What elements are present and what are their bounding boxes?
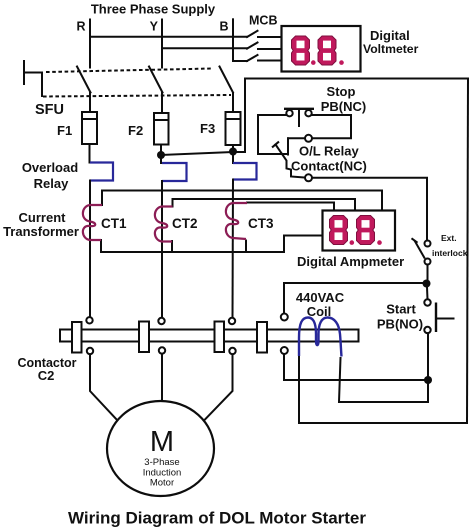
svg-text:B: B — [219, 20, 228, 34]
wire MCB out 2 to voltmeter — [258, 48, 282, 50]
svg-text:Voltmeter: Voltmeter — [363, 42, 419, 56]
wire MCB out 1 to voltmeter — [258, 36, 282, 38]
node junction below start PB — [424, 376, 432, 384]
ammeter decimal point 2 — [377, 240, 382, 245]
wire CT secondary bottom bus to ammeter — [101, 236, 323, 253]
svg-text:Current: Current — [19, 210, 67, 225]
SFU linkage dotted line lower — [44, 95, 230, 97]
overload relay heater B (blue) — [233, 163, 257, 180]
svg-text:Ext.: Ext. — [441, 233, 457, 243]
wire coil left lead — [298, 352, 300, 423]
wire Y phase mid vertical — [161, 181, 163, 318]
stop push button PB(NC) — [284, 109, 314, 127]
SFU handle — [23, 61, 25, 84]
voltmeter decimal point 1 — [311, 60, 316, 65]
SFU linkage dotted line upper — [47, 69, 212, 73]
ammeter decimal point 1 — [350, 240, 355, 245]
svg-text:F2: F2 — [128, 123, 143, 138]
wire R to fuse F1 — [89, 93, 91, 112]
svg-text:Overload: Overload — [22, 160, 78, 175]
contactor contact circles bottom — [87, 348, 93, 354]
control box top edge — [245, 78, 468, 80]
overload relay heater Y (blue) — [162, 163, 187, 181]
wire Y phase top vertical — [161, 20, 163, 68]
svg-text:R: R — [76, 20, 85, 34]
MCB blade pole 1 — [247, 31, 258, 37]
wire start PB bottom to lower junction — [427, 333, 429, 376]
wire Y to fuse F2 — [161, 93, 163, 113]
wire contactor to motor Y — [161, 354, 163, 399]
fuse F2 — [154, 113, 169, 145]
current transformer CT1 — [83, 205, 102, 240]
svg-text:Digital Ampmeter: Digital Ampmeter — [297, 254, 404, 269]
wire stop PB left drop — [258, 115, 286, 154]
svg-text:PB(NC): PB(NC) — [321, 99, 367, 114]
ext interlock switch — [412, 238, 431, 264]
contactor contact circles top — [86, 317, 92, 323]
junction dot at F2 — [157, 151, 165, 159]
contactor pole 4 — [257, 322, 267, 353]
wire MCB out 3 to voltmeter — [258, 60, 282, 62]
current transformer CT2 — [155, 207, 173, 242]
wire Y tap to MCB — [162, 47, 247, 49]
wire contactor to motor B — [205, 354, 233, 420]
svg-text:Y: Y — [150, 20, 159, 34]
MCB blade pole 3 — [233, 60, 247, 62]
svg-text:Transformer: Transformer — [3, 224, 79, 239]
wire O/L bottom to ext interlock — [312, 178, 427, 241]
svg-text:Relay: Relay — [34, 176, 69, 191]
svg-text:3-Phase: 3-Phase — [144, 457, 179, 468]
svg-text:Digital: Digital — [370, 28, 410, 43]
svg-text:Contact(NC): Contact(NC) — [291, 159, 367, 174]
voltmeter digit 8 (tens) — [292, 36, 310, 65]
wire R phase top vertical — [89, 20, 91, 68]
svg-text:440VAC: 440VAC — [296, 290, 345, 305]
wire R phase mid vertical — [89, 181, 91, 318]
wire CT3 secondary bottom stub — [245, 241, 247, 253]
O/L relay contact (NC) — [273, 135, 312, 182]
digital voltmeter U1 box — [282, 26, 361, 72]
digital ammeter U2 box — [323, 211, 396, 251]
svg-text:F3: F3 — [200, 121, 215, 136]
wire CT2 secondary bottom stub — [171, 241, 173, 252]
junction dot at F3 — [229, 148, 237, 156]
wire CT1 secondary bottom stub — [100, 240, 102, 252]
wire B phase top vertical — [232, 19, 234, 61]
contactor pole 3 — [215, 322, 225, 353]
overload relay heater R (blue) — [90, 163, 113, 181]
contactor pole 2 — [139, 322, 149, 353]
svg-text:PB(NO): PB(NO) — [377, 317, 423, 332]
wire B to fuse F3 — [232, 93, 234, 112]
ammeter digit 8 (units) — [357, 216, 375, 245]
svg-text:Three Phase Supply: Three Phase Supply — [91, 2, 216, 17]
SFU switch blade R — [77, 67, 91, 93]
aux contact top circle — [281, 314, 288, 321]
wire F1 bottom stub — [89, 144, 91, 163]
svg-text:O/L Relay: O/L Relay — [299, 144, 360, 159]
MCB blade pole 2 — [247, 43, 258, 49]
wire stop PB right to O/L top — [312, 115, 352, 138]
svg-text:SFU: SFU — [35, 102, 64, 118]
fuse F1 — [82, 112, 97, 144]
svg-text:M: M — [150, 426, 174, 458]
wire B phase mid vertical — [232, 180, 235, 318]
svg-text:F1: F1 — [57, 123, 72, 138]
node junction above start PB — [423, 280, 431, 288]
control box bottom edge — [299, 422, 467, 424]
motor M circle — [107, 401, 214, 496]
fuse F3 — [226, 112, 241, 145]
svg-text:Wiring Diagram of DOL Motor St: Wiring Diagram of DOL Motor Starter — [68, 509, 366, 528]
control box right edge — [467, 79, 468, 424]
wire contactor to motor R — [90, 354, 118, 420]
svg-text:interlock: interlock — [432, 248, 468, 258]
wire F3 bottom stub — [232, 145, 234, 163]
wire CT3 secondary top (line C) — [247, 203, 334, 212]
svg-text:Start: Start — [386, 302, 416, 317]
wire junction to start PB — [426, 287, 429, 299]
current transformer CT3 — [226, 203, 247, 239]
wire R tap to MCB — [90, 36, 247, 38]
svg-text:C2: C2 — [38, 368, 55, 383]
ammeter digit 8 (tens) — [330, 216, 348, 245]
wire junction to aux contact branch — [284, 283, 426, 313]
svg-text:CT3: CT3 — [248, 216, 274, 231]
svg-text:CT2: CT2 — [172, 216, 198, 231]
start push button PB(NO) — [424, 299, 454, 333]
wire CT2 secondary top (line B) — [173, 199, 356, 211]
wire F2 bottom stub — [160, 145, 162, 164]
voltmeter digit 8 (units) — [318, 36, 336, 65]
wire control feed from F2/F3 junction — [161, 79, 245, 155]
wire interlock to junction — [427, 265, 429, 281]
contactor pole 1 — [72, 322, 82, 353]
voltmeter decimal point 2 — [339, 60, 344, 65]
aux contact bottom circle — [281, 347, 288, 354]
svg-text:Motor: Motor — [150, 478, 174, 489]
svg-text:MCB: MCB — [249, 14, 277, 28]
svg-text:Stop: Stop — [327, 84, 356, 99]
wire CT1 secondary top (line A) — [102, 191, 382, 212]
wire lower junction to coil right — [339, 358, 428, 402]
440VAC coil (blue) — [299, 318, 342, 357]
wire to stop PB left terminal — [258, 114, 287, 116]
wire lower junction to aux contact bottom — [284, 354, 428, 380]
SFU switch blade B — [220, 67, 234, 93]
SFU switch blade Y — [149, 67, 163, 93]
contactor C2 bar — [60, 330, 359, 342]
svg-text:CT1: CT1 — [101, 216, 127, 231]
